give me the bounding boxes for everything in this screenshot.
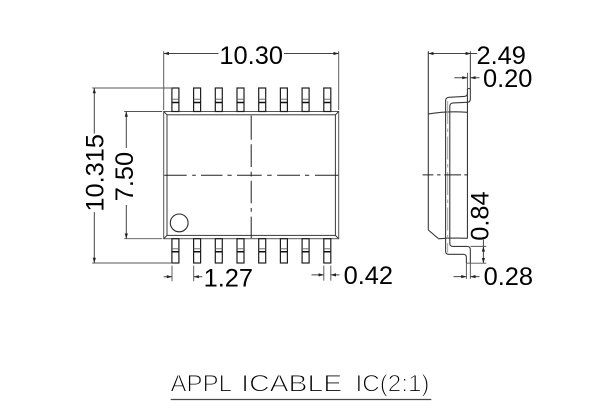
top pin 13 bbox=[237, 88, 244, 112]
vertical centerline (top view) bbox=[250, 116, 252, 238]
dimension 10.315: arrowheads bbox=[93, 88, 96, 263]
pin-1 indicator circle bbox=[170, 214, 188, 232]
lead right vertical with 2.49/0.20 extension above bbox=[469, 51, 471, 88]
top pin 10 bbox=[302, 88, 309, 112]
dimension 10.30: extension lines bbox=[164, 51, 339, 110]
top pin 11 bbox=[280, 88, 287, 112]
dimension 2.49: dimension line bbox=[428, 53, 477, 55]
side body right edge + lead upper-left vertical bbox=[466, 89, 468, 239]
dimension 10.315: extension lines bbox=[92, 88, 172, 263]
bottom pin 1 bbox=[172, 239, 179, 263]
horizontal centerline (top view) bbox=[164, 174, 338, 176]
top pin 12 bbox=[259, 88, 266, 112]
side body left edge (with 2.49 extension) bbox=[427, 51, 429, 230]
dimension 7.50: extension lines bbox=[124, 112, 162, 239]
side body bottom-left chamfer bbox=[428, 230, 438, 238]
svg-text:7.50: 7.50 bbox=[111, 152, 139, 201]
bottom pin 2 bbox=[194, 239, 201, 263]
bottom pin 6 bbox=[280, 239, 287, 263]
top pins bend line upper (grey) bbox=[172, 98, 331, 100]
side body bottom edge bbox=[438, 237, 467, 240]
svg-text:0.28: 0.28 bbox=[484, 263, 533, 291]
svg-text:APPL: APPL bbox=[171, 372, 233, 398]
bottom pins bend line upper (grey) bbox=[172, 248, 331, 250]
dimension 0.20: extension lines up from lead top bbox=[467, 73, 470, 89]
svg-text:10.30: 10.30 bbox=[219, 42, 283, 70]
body corner mitre lines bbox=[164, 112, 339, 239]
svg-text:IC(2:1): IC(2:1) bbox=[356, 372, 430, 398]
dimension 0.42: extension lines bbox=[324, 266, 331, 281]
dimension 10.30: arrowheads bbox=[164, 52, 339, 55]
top pin 16 bbox=[172, 88, 179, 112]
bottom pin 4 bbox=[237, 239, 244, 263]
top pin 15 bbox=[194, 88, 201, 112]
title underline bbox=[171, 399, 432, 401]
bottom pins bend line lower (black) bbox=[172, 251, 331, 253]
lead centerline (dash-dot) bbox=[447, 101, 449, 253]
dimension 0.42: arrowheads bbox=[319, 273, 336, 276]
top pin 14 bbox=[215, 88, 222, 112]
svg-text:0.20: 0.20 bbox=[483, 65, 532, 93]
lead inner (right) profile bbox=[450, 89, 471, 264]
dimension 7.50: arrowheads bbox=[125, 112, 128, 239]
dimension 10.315: dimension line bbox=[93, 88, 95, 263]
dimension 0.28: extension lines (down from foot) bbox=[466, 263, 470, 279]
dimension 0.28: arrowheads bbox=[461, 275, 475, 278]
bottom pin 8 bbox=[324, 239, 331, 263]
lead top end flat bbox=[467, 88, 470, 90]
svg-text:1.27: 1.27 bbox=[204, 265, 253, 293]
bottom pin 3 bbox=[215, 239, 222, 263]
svg-text:10.315: 10.315 bbox=[82, 134, 110, 212]
top pin 9 bbox=[324, 88, 331, 112]
dimension 1.27: arrowheads bbox=[167, 275, 199, 278]
svg-text:0.42: 0.42 bbox=[344, 262, 393, 290]
lead outer (left) profile bbox=[446, 93, 468, 263]
side body top arc bbox=[428, 112, 467, 114]
svg-text:0.84: 0.84 bbox=[466, 191, 494, 240]
dimension 7.50: dimension line bbox=[125, 112, 127, 239]
dimension 0.84: extension lines bbox=[466, 246, 486, 263]
dimension 1.27: extension lines bbox=[172, 266, 194, 282]
dimension 10.30: dimension line bbox=[164, 53, 339, 55]
IC body outer outline (top view) bbox=[164, 112, 339, 239]
dimension 0.28: dimension line + tails bbox=[454, 276, 480, 278]
side view horizontal centerline bbox=[423, 174, 468, 176]
bottom pin 7 bbox=[302, 239, 309, 263]
dimension 0.20: dimension line + tails bbox=[454, 77, 479, 79]
dimension 1.27: dimension line + tails bbox=[164, 276, 203, 278]
svg-text:ICABLE: ICABLE bbox=[241, 372, 342, 398]
bottom pin 5 bbox=[259, 239, 266, 263]
dimension 0.84: dimension line bbox=[482, 240, 484, 264]
dimension 0.84: arrowheads bbox=[482, 246, 485, 263]
dimension 0.20: arrowheads bbox=[462, 76, 475, 79]
top pins bend line lower (black) bbox=[172, 102, 331, 104]
IC body inner outline (top view) bbox=[167, 115, 335, 236]
dimension 2.49: arrowheads bbox=[428, 52, 471, 55]
dimension 0.42: dimension line + tails bbox=[312, 274, 340, 276]
